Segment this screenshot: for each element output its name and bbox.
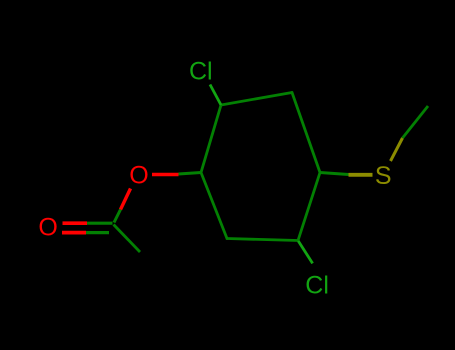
bond Oester-C(=O) red half (121, 189, 131, 210)
wire ring edge C2-C3 (A-B) (221, 93, 292, 106)
svg-text:Cl: Cl (305, 272, 329, 300)
C=O double bond upper line red half (63, 221, 88, 225)
bond C5-Cl bottom (298, 241, 312, 263)
C=O double bond lower line green half (86, 231, 109, 234)
wire ring edge C3-C4 (B-R) (292, 93, 320, 173)
bond C1-O ester red half (152, 173, 179, 177)
bond S-CH3 olive half (391, 138, 403, 161)
wire ring edge C5-C6 (C-D) (227, 239, 298, 241)
C=O double bond lower line red half (62, 231, 86, 235)
svg-text:O: O (129, 161, 148, 189)
svg-text:O: O (38, 214, 57, 242)
C=O double bond upper line green half (87, 222, 113, 225)
wire ring edge C6-C1 (D-L) (201, 173, 227, 239)
benzene ring C1-C6 (201, 93, 320, 241)
bond C(=O)-CH3 acetyl methyl (114, 225, 141, 253)
bond C4-S olive half (349, 173, 373, 177)
bond Oester-C(=O) green half (114, 210, 121, 223)
wire ring edge C1-C2 (L-A) (201, 105, 221, 173)
svg-text:Cl: Cl (189, 57, 213, 85)
wire ring edge C4-C5 (R-C) (298, 173, 320, 241)
svg-text:S: S (375, 162, 392, 190)
bond C2-Cl top (210, 85, 221, 106)
bond S-CH3 green half (403, 106, 429, 138)
bond C1-O ester green half (179, 173, 202, 175)
bond C4-S green half (320, 173, 349, 175)
